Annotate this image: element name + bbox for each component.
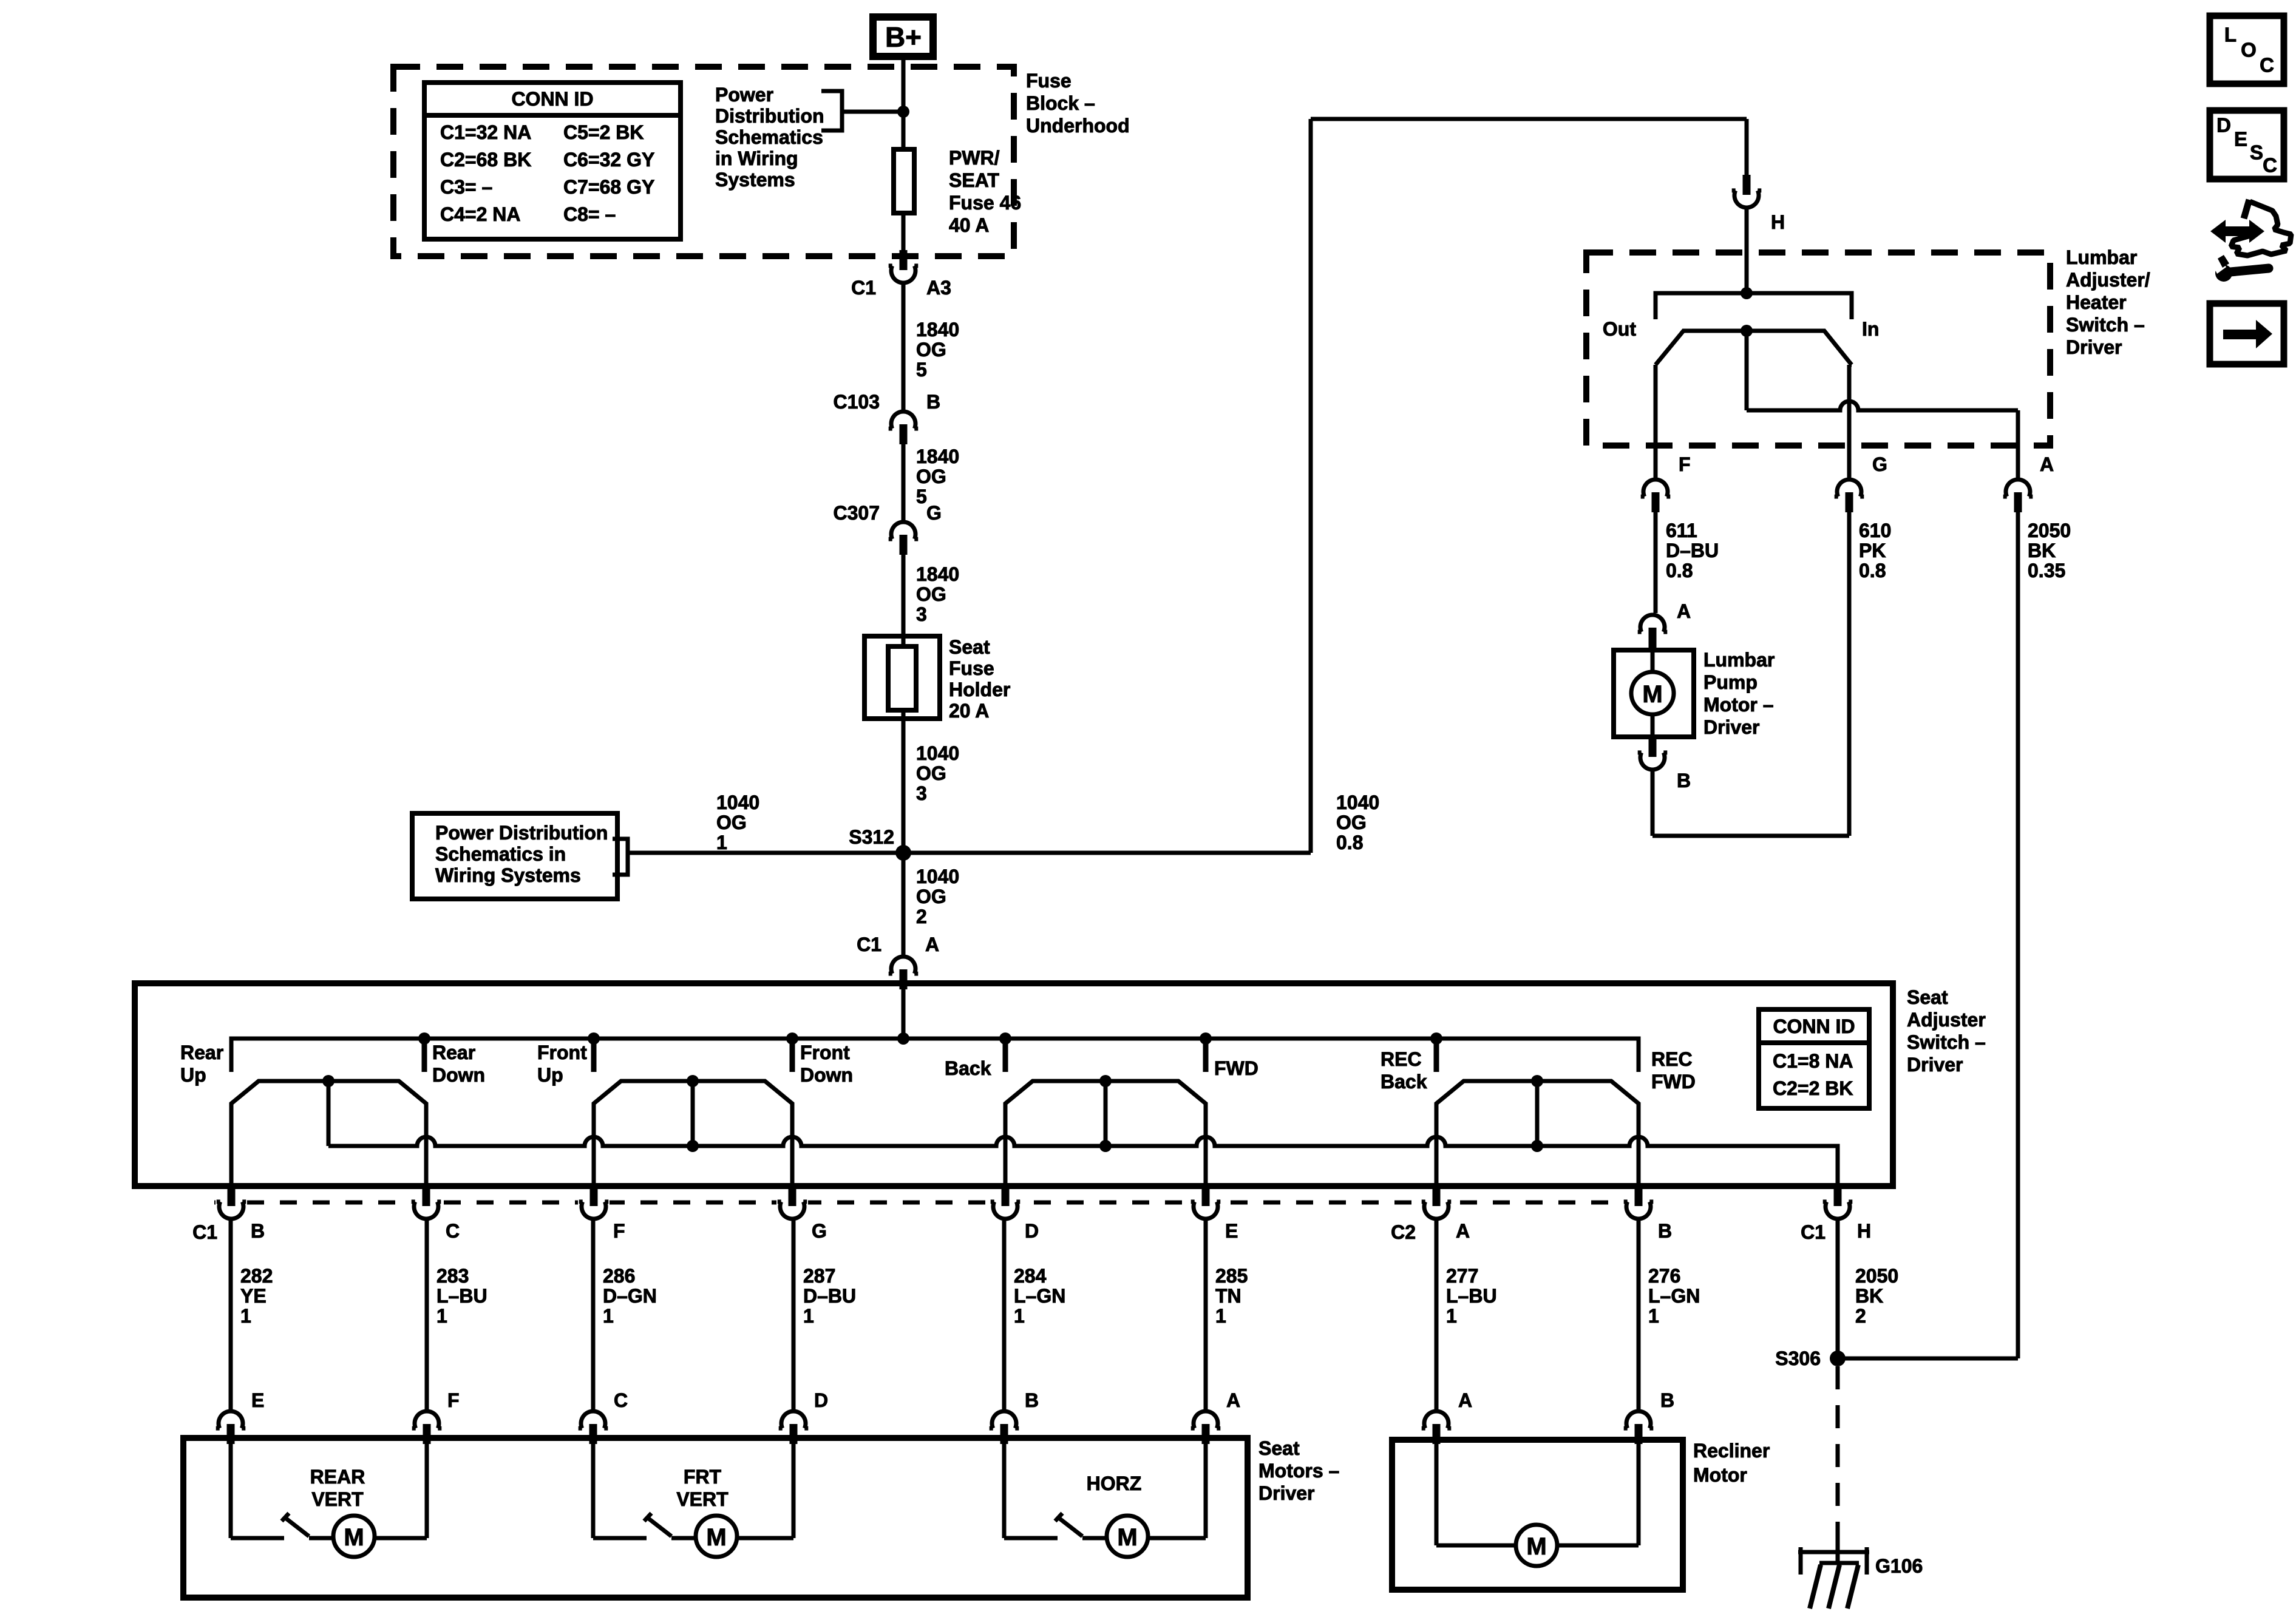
svg-text:1: 1 xyxy=(1446,1305,1457,1327)
svg-text:OG: OG xyxy=(916,339,946,361)
svg-text:BK: BK xyxy=(2028,540,2056,561)
svg-text:1040: 1040 xyxy=(716,792,759,813)
svg-text:Down: Down xyxy=(800,1064,853,1086)
svg-text:L–BU: L–BU xyxy=(1446,1285,1497,1307)
svg-text:286: 286 xyxy=(603,1265,635,1287)
svg-text:C1: C1 xyxy=(857,934,881,955)
svg-text:Distribution: Distribution xyxy=(715,105,824,127)
svg-text:C1: C1 xyxy=(1801,1221,1826,1243)
svg-text:5: 5 xyxy=(916,359,927,381)
svg-text:G: G xyxy=(1872,453,1887,475)
svg-text:C: C xyxy=(446,1220,460,1242)
svg-text:D: D xyxy=(814,1389,828,1411)
svg-text:M: M xyxy=(1117,1524,1137,1551)
svg-text:E: E xyxy=(251,1389,264,1411)
svg-text:C1: C1 xyxy=(192,1221,217,1243)
svg-text:OG: OG xyxy=(916,466,946,487)
svg-text:S312: S312 xyxy=(849,826,894,848)
svg-text:1: 1 xyxy=(1215,1305,1226,1327)
svg-text:M: M xyxy=(1642,681,1662,708)
svg-text:BK: BK xyxy=(1855,1285,1883,1307)
svg-text:G106: G106 xyxy=(1875,1555,1923,1577)
svg-text:283: 283 xyxy=(436,1265,469,1287)
svg-text:F: F xyxy=(447,1389,460,1411)
svg-text:L–GN: L–GN xyxy=(1014,1285,1065,1307)
svg-text:1: 1 xyxy=(1014,1305,1025,1327)
svg-text:A: A xyxy=(2040,453,2054,475)
svg-text:C8= –: C8= – xyxy=(563,203,616,225)
svg-text:2: 2 xyxy=(916,906,927,927)
svg-text:610: 610 xyxy=(1859,520,1891,541)
svg-text:0.8: 0.8 xyxy=(1666,560,1693,581)
svg-text:Seat: Seat xyxy=(1907,986,1948,1008)
svg-text:C307: C307 xyxy=(834,502,880,524)
svg-text:L: L xyxy=(2224,24,2237,46)
svg-text:B: B xyxy=(1677,770,1691,792)
svg-text:Front: Front xyxy=(537,1042,587,1063)
svg-text:1: 1 xyxy=(803,1305,814,1327)
svg-text:Driver: Driver xyxy=(2066,336,2122,358)
svg-text:Down: Down xyxy=(432,1064,485,1086)
svg-text:D: D xyxy=(2216,114,2231,137)
svg-text:C6=32 GY: C6=32 GY xyxy=(563,149,654,171)
svg-text:5: 5 xyxy=(916,486,927,507)
svg-text:B: B xyxy=(1658,1220,1672,1242)
svg-text:285: 285 xyxy=(1215,1265,1248,1287)
svg-text:OG: OG xyxy=(916,762,946,784)
svg-text:FWD: FWD xyxy=(1651,1071,1696,1093)
svg-text:0.35: 0.35 xyxy=(2028,560,2065,581)
svg-text:1: 1 xyxy=(716,832,727,853)
svg-text:E: E xyxy=(1225,1220,1238,1242)
svg-text:1: 1 xyxy=(603,1305,614,1327)
svg-text:Driver: Driver xyxy=(1703,716,1760,738)
svg-text:1840: 1840 xyxy=(916,563,959,585)
svg-text:C1=8 NA: C1=8 NA xyxy=(1773,1050,1853,1072)
svg-text:S: S xyxy=(2250,141,2263,164)
svg-text:A: A xyxy=(1458,1389,1472,1411)
svg-text:Back: Back xyxy=(945,1057,991,1079)
svg-text:M: M xyxy=(1526,1533,1546,1560)
svg-text:Motor: Motor xyxy=(1693,1464,1747,1486)
svg-text:Fuse: Fuse xyxy=(1026,70,1072,92)
svg-text:0.8: 0.8 xyxy=(1859,560,1886,581)
svg-text:3: 3 xyxy=(916,603,927,625)
svg-text:B: B xyxy=(251,1220,265,1242)
svg-text:A: A xyxy=(1456,1220,1470,1242)
svg-text:277: 277 xyxy=(1446,1265,1478,1287)
svg-text:Wiring Systems: Wiring Systems xyxy=(435,864,581,886)
svg-text:282: 282 xyxy=(240,1265,273,1287)
svg-text:OG: OG xyxy=(1336,812,1367,833)
svg-text:H: H xyxy=(1857,1220,1871,1242)
svg-text:Adjuster/: Adjuster/ xyxy=(2066,269,2150,291)
svg-text:2: 2 xyxy=(1855,1305,1866,1327)
svg-text:C1: C1 xyxy=(851,277,876,299)
svg-text:C2=2 BK: C2=2 BK xyxy=(1773,1077,1853,1099)
svg-text:276: 276 xyxy=(1648,1265,1680,1287)
svg-text:Seat: Seat xyxy=(949,636,990,658)
svg-text:C7=68 GY: C7=68 GY xyxy=(563,176,654,198)
svg-text:Rear: Rear xyxy=(432,1042,475,1063)
svg-text:C2: C2 xyxy=(1391,1221,1416,1243)
svg-text:Switch –: Switch – xyxy=(1907,1031,1986,1053)
svg-text:E: E xyxy=(2234,128,2247,151)
svg-text:Up: Up xyxy=(180,1064,206,1086)
svg-text:FRT: FRT xyxy=(684,1466,722,1488)
svg-text:SEAT: SEAT xyxy=(949,169,999,191)
svg-text:B: B xyxy=(1660,1389,1674,1411)
svg-text:C4=2 NA: C4=2 NA xyxy=(440,203,521,225)
svg-text:D–BU: D–BU xyxy=(803,1285,856,1307)
svg-text:C5=2 BK: C5=2 BK xyxy=(563,121,644,143)
svg-text:C103: C103 xyxy=(834,391,880,413)
svg-text:3: 3 xyxy=(916,782,927,804)
svg-text:Driver: Driver xyxy=(1258,1482,1315,1504)
svg-text:Recliner: Recliner xyxy=(1693,1440,1770,1462)
svg-text:F: F xyxy=(613,1220,625,1242)
svg-text:Holder: Holder xyxy=(949,679,1010,700)
svg-text:Adjuster: Adjuster xyxy=(1907,1009,1986,1031)
svg-text:M: M xyxy=(344,1524,364,1551)
svg-text:CONN ID: CONN ID xyxy=(511,88,593,110)
svg-text:O: O xyxy=(2241,39,2257,61)
svg-text:Schematics: Schematics xyxy=(715,126,823,148)
svg-text:Motors –: Motors – xyxy=(1258,1460,1339,1482)
svg-text:1840: 1840 xyxy=(916,319,959,341)
svg-text:B: B xyxy=(926,391,940,413)
svg-text:L–BU: L–BU xyxy=(436,1285,487,1307)
svg-text:1040: 1040 xyxy=(916,866,959,887)
svg-text:CONN ID: CONN ID xyxy=(1773,1015,1855,1037)
svg-text:VERT: VERT xyxy=(311,1488,364,1510)
svg-text:REAR: REAR xyxy=(310,1466,365,1488)
svg-text:OG: OG xyxy=(716,812,747,833)
svg-text:1040: 1040 xyxy=(916,742,959,764)
svg-text:G: G xyxy=(812,1220,827,1242)
svg-text:L–GN: L–GN xyxy=(1648,1285,1700,1307)
svg-text:F: F xyxy=(1679,453,1691,475)
svg-text:2050: 2050 xyxy=(1855,1265,1898,1287)
svg-text:Back: Back xyxy=(1381,1071,1427,1093)
svg-text:Pump: Pump xyxy=(1703,671,1758,693)
svg-text:Power: Power xyxy=(715,84,773,106)
svg-text:C1=32 NA: C1=32 NA xyxy=(440,121,531,143)
svg-text:B+: B+ xyxy=(885,21,922,53)
svg-text:1: 1 xyxy=(240,1305,251,1327)
svg-text:Lumbar: Lumbar xyxy=(2066,246,2137,268)
svg-text:HORZ: HORZ xyxy=(1087,1473,1142,1494)
svg-text:D–BU: D–BU xyxy=(1666,540,1719,561)
svg-text:REC: REC xyxy=(1381,1048,1422,1070)
svg-text:Out: Out xyxy=(1603,318,1636,340)
svg-text:20 A: 20 A xyxy=(949,700,989,722)
svg-text:S306: S306 xyxy=(1775,1347,1821,1369)
svg-text:284: 284 xyxy=(1014,1265,1047,1287)
svg-text:0.8: 0.8 xyxy=(1336,832,1363,853)
svg-text:PWR/: PWR/ xyxy=(949,147,1000,169)
svg-text:TN: TN xyxy=(1215,1285,1241,1307)
svg-text:Lumbar: Lumbar xyxy=(1703,649,1775,671)
svg-text:40 A: 40 A xyxy=(949,214,989,236)
svg-text:G: G xyxy=(926,502,942,524)
svg-text:Motor –: Motor – xyxy=(1703,694,1774,716)
svg-text:Fuse: Fuse xyxy=(949,657,994,679)
svg-text:Front: Front xyxy=(800,1042,850,1063)
svg-text:C: C xyxy=(2263,154,2277,177)
svg-text:1840: 1840 xyxy=(916,446,959,467)
svg-text:Block –: Block – xyxy=(1026,92,1095,114)
svg-text:H: H xyxy=(1771,211,1785,233)
svg-text:Switch –: Switch – xyxy=(2066,314,2145,336)
svg-text:C3= –: C3= – xyxy=(440,176,492,198)
svg-text:REC: REC xyxy=(1651,1048,1693,1070)
svg-text:Up: Up xyxy=(537,1064,563,1086)
svg-text:Rear: Rear xyxy=(180,1042,223,1063)
svg-text:OG: OG xyxy=(916,583,946,605)
svg-text:C: C xyxy=(614,1389,628,1411)
svg-text:C2=68 BK: C2=68 BK xyxy=(440,149,531,171)
svg-text:Systems: Systems xyxy=(715,169,795,191)
svg-text:Schematics in: Schematics in xyxy=(435,843,566,865)
svg-text:D: D xyxy=(1025,1220,1039,1242)
svg-text:Fuse 46: Fuse 46 xyxy=(949,192,1021,214)
svg-text:A: A xyxy=(1226,1389,1240,1411)
svg-text:A: A xyxy=(925,934,939,955)
svg-text:D–GN: D–GN xyxy=(603,1285,657,1307)
svg-text:YE: YE xyxy=(240,1285,267,1307)
svg-text:FWD: FWD xyxy=(1214,1057,1258,1079)
svg-text:A3: A3 xyxy=(926,277,951,299)
svg-text:287: 287 xyxy=(803,1265,835,1287)
svg-text:M: M xyxy=(706,1524,726,1551)
svg-text:1040: 1040 xyxy=(1336,792,1379,813)
svg-text:Power Distribution: Power Distribution xyxy=(435,822,608,844)
svg-text:1: 1 xyxy=(436,1305,447,1327)
svg-text:Driver: Driver xyxy=(1907,1054,1963,1076)
svg-text:Heater: Heater xyxy=(2066,291,2127,313)
svg-text:Seat: Seat xyxy=(1258,1437,1300,1459)
svg-text:B: B xyxy=(1025,1389,1039,1411)
svg-text:611: 611 xyxy=(1666,520,1697,541)
svg-text:OG: OG xyxy=(916,886,946,907)
svg-text:2050: 2050 xyxy=(2028,520,2071,541)
svg-text:A: A xyxy=(1677,600,1691,622)
svg-text:in Wiring: in Wiring xyxy=(715,147,798,169)
svg-text:1: 1 xyxy=(1648,1305,1659,1327)
svg-text:Underhood: Underhood xyxy=(1026,115,1130,137)
svg-text:VERT: VERT xyxy=(676,1488,729,1510)
svg-text:In: In xyxy=(1862,318,1879,340)
svg-text:PK: PK xyxy=(1859,540,1886,561)
svg-text:C: C xyxy=(2260,54,2274,76)
